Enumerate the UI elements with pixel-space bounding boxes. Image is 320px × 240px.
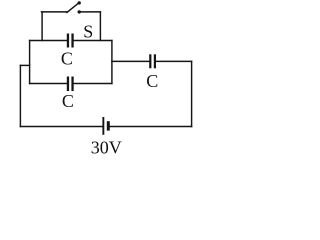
wire switch-loop left vertical [41,12,43,41]
svg-text:C: C [62,91,74,111]
wire box bottom edge right part [74,83,112,85]
wire switch-loop top left segment [42,11,67,13]
switch S blade [67,3,78,12]
wire box right edge [111,41,113,84]
wire outer right vertical [191,61,193,126]
svg-text:S: S [83,21,93,41]
svg-text:30V: 30V [91,137,122,155]
battery negative plate (short thick) [107,121,110,130]
wire box bottom edge left part [30,83,67,85]
wire right horizontal left part [112,60,149,62]
capacitor C1 plates (top branch) [67,34,69,48]
capacitor C3 plates (right branch) [149,54,151,68]
wire box top edge left part [30,40,67,42]
svg-text:C: C [61,49,73,69]
capacitor C2 plates (bottom branch) [67,77,69,92]
wire right horizontal right part [156,60,192,62]
switch S contact dot lower [78,10,81,13]
wire switch-loop top right segment [81,11,101,13]
wire switch-loop right vertical [99,12,101,41]
svg-text:C: C [146,71,158,91]
battery positive plate (long) [102,117,104,135]
switch S contact dot upper [78,1,81,4]
wire left stub to outer loop [20,64,29,66]
wire bottom right segment [110,126,192,128]
wire bottom left segment [20,126,102,128]
wire box top edge right part [74,40,112,42]
wire box left edge [29,41,31,84]
wire outer left vertical [19,65,21,126]
